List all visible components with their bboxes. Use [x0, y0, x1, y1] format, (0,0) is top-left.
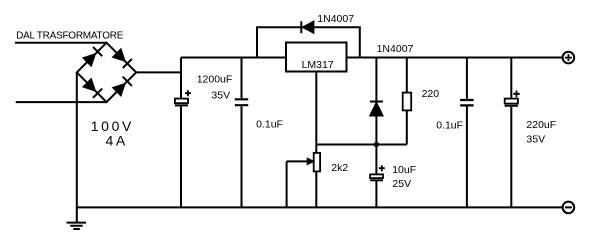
svg-text:25V: 25V: [392, 178, 411, 190]
svg-text:220uF: 220uF: [526, 119, 556, 131]
svg-text:10uF: 10uF: [392, 164, 416, 176]
svg-text:0.1uF: 0.1uF: [256, 119, 283, 131]
svg-text:1200uF: 1200uF: [197, 74, 233, 86]
svg-text:35V: 35V: [526, 134, 545, 146]
svg-text:DAL TRASFORMATORE: DAL TRASFORMATORE: [16, 30, 124, 41]
svg-text:4A: 4A: [106, 133, 128, 149]
svg-text:1N4007: 1N4007: [377, 43, 414, 55]
svg-text:220: 220: [422, 88, 440, 100]
svg-text:35V: 35V: [211, 90, 230, 102]
svg-text:1N4007: 1N4007: [317, 13, 354, 25]
svg-text:2k2: 2k2: [331, 162, 348, 174]
svg-text:0.1uF: 0.1uF: [436, 120, 463, 132]
svg-text:100V: 100V: [91, 118, 134, 134]
svg-text:LM317: LM317: [302, 59, 334, 71]
